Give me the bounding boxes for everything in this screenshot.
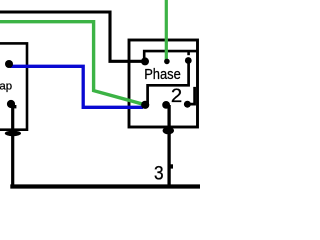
- phase switch outer box: [129, 40, 198, 127]
- wire: from node F right and up (open switch throw): [187, 87, 195, 104]
- node B (phase terminal, green feed): [164, 59, 170, 65]
- svg-text:3: 3: [154, 163, 164, 184]
- wire: bottom bus from cap box to right edge: [10, 184, 200, 188]
- blue wire: node G right, down at x=81.7, right to node D: [10, 66, 143, 107]
- feedthrough blob on phase box wall: [163, 127, 174, 134]
- wire: inner contact bar of phase switch (node A up, across top, short stub down right): [144, 51, 197, 61]
- svg-text:Phase: Phase: [144, 67, 181, 83]
- capacitor box (left, label Cap, cut off at image edge): [0, 43, 27, 129]
- wire: from node E down through phase box wall to bottom bus: [167, 105, 170, 186]
- node G (cap terminal, blue): [5, 60, 13, 68]
- green wire: from left edge, down at x=93.6, diagonal to node D: [0, 22, 145, 105]
- feedthrough blob on cap box wall: [5, 131, 21, 137]
- svg-text:ap: ap: [0, 81, 12, 93]
- stub from inner bar toward node C: [187, 51, 190, 55]
- svg-text:2: 2: [171, 86, 182, 107]
- node H (cap terminal, black): [7, 100, 15, 108]
- node D (phase terminal, blue+green): [141, 101, 149, 109]
- green wire: from top edge down to node B: [165, 0, 168, 62]
- wire: top black run from left edge, down at x=110, into phase box to node A: [0, 12, 145, 61]
- node A (phase terminal, black feed): [141, 57, 149, 65]
- node C (phase terminal, top right): [185, 57, 192, 64]
- nub on node H: [13, 105, 16, 108]
- node F (phase terminal, bottom right): [184, 101, 191, 108]
- wire: from node C down, left, down to node D: [148, 61, 189, 105]
- joint nub on node E wire: [168, 164, 173, 168]
- node E (phase terminal, to bottom bus): [162, 101, 170, 109]
- wire: from node H in cap box down through box wall: [11, 104, 14, 186]
